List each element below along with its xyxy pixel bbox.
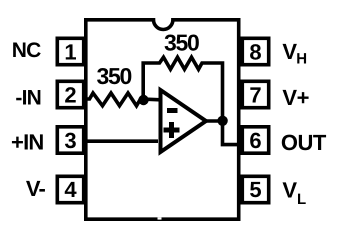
svg-text:L: L — [297, 191, 306, 208]
svg-text:NC: NC — [12, 39, 41, 62]
svg-text:V: V — [282, 39, 297, 64]
svg-text:7: 7 — [249, 83, 261, 108]
svg-text:3: 3 — [64, 128, 76, 153]
svg-text:350: 350 — [97, 63, 132, 89]
svg-text:350: 350 — [164, 30, 199, 56]
svg-text:1: 1 — [64, 40, 76, 65]
svg-text:-IN: -IN — [15, 87, 41, 110]
svg-text:V-: V- — [26, 176, 46, 201]
svg-text:8: 8 — [249, 40, 261, 65]
svg-text:4: 4 — [64, 177, 77, 202]
svg-text:6: 6 — [249, 128, 261, 153]
svg-text:5: 5 — [249, 177, 261, 202]
svg-text:V+: V+ — [282, 85, 309, 110]
svg-text:+IN: +IN — [11, 130, 43, 155]
svg-text:V: V — [282, 178, 297, 203]
svg-text:OUT: OUT — [281, 130, 327, 155]
svg-text:2: 2 — [64, 83, 76, 108]
svg-text:H: H — [296, 51, 306, 68]
